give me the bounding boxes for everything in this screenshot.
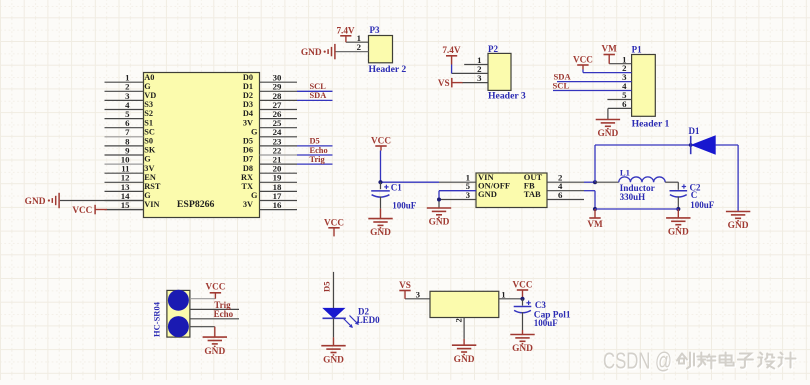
svg-text:100uF: 100uF (392, 200, 417, 210)
ESP8266 pin 10 G (105, 155, 152, 165)
svg-text:SDA: SDA (310, 91, 327, 100)
P2 pin 3 (462, 73, 488, 83)
svg-text:D3: D3 (243, 100, 253, 109)
node VIN junction (378, 180, 382, 184)
regulator U3 pin 3 (405, 289, 430, 299)
regulator pin 5 ON/OFF (439, 180, 510, 191)
svg-text:G: G (251, 191, 258, 200)
svg-text:SCL: SCL (553, 80, 570, 90)
svg-text:TAB: TAB (524, 189, 541, 199)
ESP8266 pin 12 EN (105, 173, 156, 183)
regulator U2 body (476, 173, 547, 208)
svg-text:EN: EN (144, 173, 156, 182)
svg-text:HC-SR04: HC-SR04 (152, 301, 162, 337)
wire ON/OFF + GND to ground (437, 191, 441, 208)
ESP8266 pin 15 VIN (105, 200, 160, 210)
ESP8266 pin 28 D2 (243, 91, 297, 101)
svg-text:GND: GND (728, 221, 749, 231)
wire inductor to C2 (665, 182, 678, 190)
svg-text:CSDN @: CSDN @ (603, 348, 672, 374)
svg-text:D5: D5 (310, 137, 320, 146)
P1 pin 2 (583, 63, 632, 73)
power port VM (P1 pin 1) (602, 44, 618, 64)
svg-text:3: 3 (477, 73, 482, 83)
regulator pin 4 FB (524, 180, 584, 191)
svg-text:Header 3: Header 3 (488, 90, 526, 101)
svg-text:D1: D1 (243, 82, 253, 91)
svg-text:D1: D1 (689, 126, 700, 136)
regulator pin 2 OUT (524, 172, 584, 183)
svg-text:D7: D7 (243, 155, 253, 164)
inductor L1 330uH (619, 167, 665, 201)
ESP8266 pin 19 RX (241, 173, 297, 183)
power port GND (ESP8266 pin 14) (25, 193, 144, 208)
svg-text:GND: GND (597, 129, 618, 139)
ESP8266 pin 17 G (251, 191, 297, 201)
P1 pin 6 wire to ground (607, 108, 609, 119)
diode D1 (689, 126, 716, 154)
wire VM to P1 pin1 (608, 55, 610, 64)
svg-text:330uH: 330uH (620, 192, 646, 202)
svg-text:D2: D2 (243, 91, 253, 100)
power port VS (P2 pin 3) (438, 78, 463, 88)
wire C3 to ground (522, 312, 524, 334)
svg-text:Echo: Echo (214, 309, 234, 319)
P3 pin 1 (346, 33, 369, 43)
svg-text:S2: S2 (144, 109, 153, 118)
svg-text:RST: RST (144, 182, 161, 191)
svg-text:P1: P1 (632, 44, 642, 54)
power port VCC (ESP8266 pin 15) (72, 205, 143, 215)
regulator U3 pin 1 (499, 289, 523, 299)
ESP8266 pin 26 D4 (243, 109, 297, 119)
svg-text:3: 3 (416, 289, 421, 299)
ESP8266 pin 13 RST (105, 182, 161, 192)
ground (D1 anode) (726, 212, 750, 232)
ESP8266 pin 23 D5 (243, 136, 297, 146)
HC-SR04 pin Trig (190, 300, 239, 310)
P1 pin 1 (609, 54, 631, 64)
svg-text:D6: D6 (243, 146, 253, 155)
P2 pin 1 (464, 55, 488, 65)
svg-text:Header 1: Header 1 (632, 119, 670, 130)
wire VCC to VIN node (380, 151, 382, 183)
svg-text:6: 6 (558, 190, 563, 200)
wire VS to P2 pin3 (452, 82, 463, 84)
ESP8266 pin 30 D0 (243, 73, 297, 83)
svg-text:3V: 3V (243, 118, 253, 127)
ground (HC-SR04) (203, 337, 227, 357)
regulator pin 3 GND (439, 189, 497, 200)
svg-text:C3: C3 (535, 300, 546, 310)
P1 pin 4 (553, 81, 632, 91)
svg-text:VS: VS (438, 78, 450, 88)
connector P2 Header 3 (488, 44, 526, 101)
ESP8266 pin 20 D8 (243, 164, 297, 174)
P3 pin 2 (336, 42, 369, 52)
ESP8266 pin 24 G (251, 127, 297, 137)
P2 pin 2 (452, 64, 488, 74)
svg-text:VM: VM (587, 219, 603, 229)
svg-text:VCC: VCC (72, 205, 92, 215)
wire C1 to ground (380, 197, 382, 219)
ESP8266 pin 5 S2 (105, 109, 154, 119)
HC-SR04 pin Echo (190, 309, 239, 319)
wire 7.4V to P2 pin2 (451, 65, 453, 74)
svg-text:GND: GND (512, 344, 533, 354)
watermark CSDN (603, 348, 797, 374)
P1 pin 3 (557, 72, 632, 82)
svg-text:GND: GND (668, 228, 689, 238)
wire LED to ground (333, 318, 335, 345)
capacitor C3 (514, 299, 571, 328)
wire D5 to LED (333, 272, 335, 309)
wire OUT to node (584, 181, 595, 183)
power port VCC (regulator input) (371, 135, 391, 150)
svg-text:L1: L1 (620, 167, 630, 177)
svg-text:D8: D8 (243, 164, 253, 173)
svg-text:7.4V: 7.4V (442, 45, 460, 55)
power port 7.4V (P3) (336, 25, 354, 42)
capacitor C1 (371, 182, 417, 210)
svg-text:VCC: VCC (513, 279, 533, 289)
ground (C2) (666, 209, 690, 238)
svg-text:VCC: VCC (371, 135, 391, 145)
svg-text:GND: GND (370, 228, 391, 238)
wire VM rail (595, 208, 678, 210)
svg-text:3V: 3V (243, 200, 253, 209)
ground (C1) (368, 219, 392, 238)
ESP8266 pin 25 3V (243, 118, 297, 128)
wire net D5 (297, 137, 333, 146)
svg-text:LED0: LED0 (357, 315, 381, 325)
svg-text:D5: D5 (322, 281, 332, 292)
wire U3 pin2 to ground (463, 339, 465, 345)
svg-text:100uF: 100uF (534, 318, 559, 328)
svg-text:D5: D5 (243, 137, 253, 146)
svg-text:VCC: VCC (205, 282, 225, 292)
svg-text:C1: C1 (391, 183, 402, 193)
svg-text:3: 3 (466, 190, 471, 200)
LED D2 (323, 306, 381, 328)
svg-text:GND: GND (478, 189, 497, 199)
svg-text:VCC: VCC (324, 217, 344, 227)
svg-text:G: G (144, 191, 151, 200)
svg-text:SCL: SCL (310, 82, 327, 91)
ground (U3 pin 2) (452, 345, 476, 365)
wire node up to D1 (594, 145, 596, 182)
node FB/VM junction (593, 207, 597, 211)
svg-text:VIN: VIN (144, 200, 159, 209)
ESP8266 pin 3 VD (105, 91, 157, 101)
node U3 out junction (520, 297, 524, 301)
svg-text:2: 2 (357, 42, 362, 52)
power port VS (U3) (399, 280, 411, 299)
P1 pin 6 (608, 99, 632, 109)
ESP8266 pin 6 S1 (105, 118, 154, 128)
regulator pin 6 TAB (524, 189, 584, 200)
ESP8266 pin 29 D1 (243, 82, 297, 92)
svg-text:GND: GND (323, 355, 344, 365)
svg-text:SK: SK (144, 146, 156, 155)
power port GND (P3 pin 2) (301, 44, 335, 59)
HC-SR04 pin VCC (190, 298, 216, 300)
svg-text:16: 16 (273, 200, 282, 210)
connector HC-SR04 (152, 290, 190, 337)
P1 pin 5 (607, 90, 631, 100)
wire 7.4V to P3 pin1 (345, 36, 347, 42)
svg-text:A0: A0 (144, 73, 154, 82)
ESP8266 pin 11 3V (105, 164, 155, 174)
node OUT junction (593, 180, 597, 184)
wire VIN node to regulator (381, 181, 440, 183)
wire net Trig (297, 155, 333, 164)
ESP8266 pin 18 TX (241, 182, 297, 192)
svg-text:P2: P2 (488, 44, 498, 54)
connector P1 Header 1 (632, 44, 670, 129)
ESP8266 pin 14 G (105, 191, 152, 201)
svg-text:VD: VD (144, 91, 156, 100)
wire D1 top rail (595, 144, 691, 146)
svg-text:GND: GND (454, 355, 475, 365)
svg-text:G: G (144, 82, 151, 91)
node C2 junction (676, 207, 680, 211)
svg-text:D4: D4 (243, 109, 253, 118)
svg-text:C: C (691, 190, 698, 200)
power port VCC (floating) (324, 217, 344, 236)
ESP8266 pin 1 A0 (105, 73, 155, 83)
svg-text:Echo: Echo (310, 146, 328, 155)
svg-text:P3: P3 (370, 25, 380, 35)
svg-text:TX: TX (241, 182, 253, 191)
svg-text:G: G (251, 127, 258, 136)
ESP8266 pin 9 SK (105, 145, 156, 155)
regulator pin 1 VIN (439, 172, 494, 183)
svg-text:Trig: Trig (310, 155, 326, 164)
wire D1 to right drop (715, 145, 738, 212)
svg-text:VS: VS (399, 280, 411, 290)
svg-text:VCC: VCC (573, 54, 593, 64)
wire GND to pin14 (60, 200, 144, 202)
svg-text:GND: GND (301, 48, 322, 58)
svg-text:D0: D0 (243, 73, 253, 82)
power port VCC (U3 out) (513, 279, 533, 298)
power port VCC (P1 pin 2) (573, 54, 593, 72)
svg-text:3V: 3V (144, 164, 154, 173)
wire net SCL (297, 82, 333, 91)
power port VM (587, 209, 603, 229)
power port VCC (HC-SR04) (205, 282, 225, 299)
svg-text:GND: GND (25, 197, 46, 207)
ESP8266 pin 8 S0 (105, 136, 154, 146)
HC-SR04 pin GND (190, 327, 215, 337)
svg-text:2: 2 (454, 318, 464, 322)
svg-text:VM: VM (602, 44, 618, 54)
capacitor C2 (670, 182, 715, 210)
ground (LED D2) (321, 346, 345, 366)
wire VCC to pin15 (95, 209, 107, 211)
ESP8266 pin 27 D3 (243, 100, 297, 110)
wire C2 to rail (677, 196, 679, 209)
svg-text:15: 15 (121, 200, 130, 210)
wire net Echo (297, 146, 333, 155)
wire FB down (584, 191, 595, 209)
svg-text:GND: GND (204, 347, 225, 357)
svg-text:1: 1 (501, 289, 505, 299)
svg-text:6: 6 (622, 99, 627, 109)
power port 7.4V (P2) (442, 45, 460, 73)
svg-text:GND: GND (429, 218, 450, 228)
svg-text:7.4V: 7.4V (336, 25, 354, 35)
ground (C3) (510, 335, 534, 355)
wire VCC to P1 pin2 (582, 65, 584, 70)
ESP8266 pin 2 G (105, 82, 152, 92)
ESP8266 pin 16 3V (243, 200, 297, 210)
svg-text:S1: S1 (144, 118, 153, 127)
svg-text:S0: S0 (144, 137, 153, 146)
ground (P1 pin 6) (596, 120, 620, 140)
ESP8266 pin 21 D7 (243, 155, 297, 165)
svg-text:G: G (144, 155, 151, 164)
regulator U3 pin 2 (454, 318, 465, 339)
IC U1 ESP8266 body (144, 73, 260, 218)
ESP8266 pin 4 S3 (105, 100, 154, 110)
svg-text:100uF: 100uF (690, 200, 715, 210)
ESP8266 pin 7 SC (105, 127, 155, 137)
regulator U3 body (430, 291, 499, 317)
ESP8266 pin 22 D6 (243, 145, 297, 155)
svg-text:S3: S3 (144, 100, 153, 109)
svg-text:Header 2: Header 2 (369, 64, 407, 75)
svg-text:ESP8266: ESP8266 (177, 199, 215, 210)
wire net SDA (297, 91, 333, 100)
svg-text:RX: RX (241, 173, 253, 182)
svg-text:SC: SC (144, 127, 155, 136)
connector P3 Header 2 (369, 25, 407, 75)
ground (regulator) (427, 208, 451, 228)
wire node to inductor (595, 181, 619, 183)
